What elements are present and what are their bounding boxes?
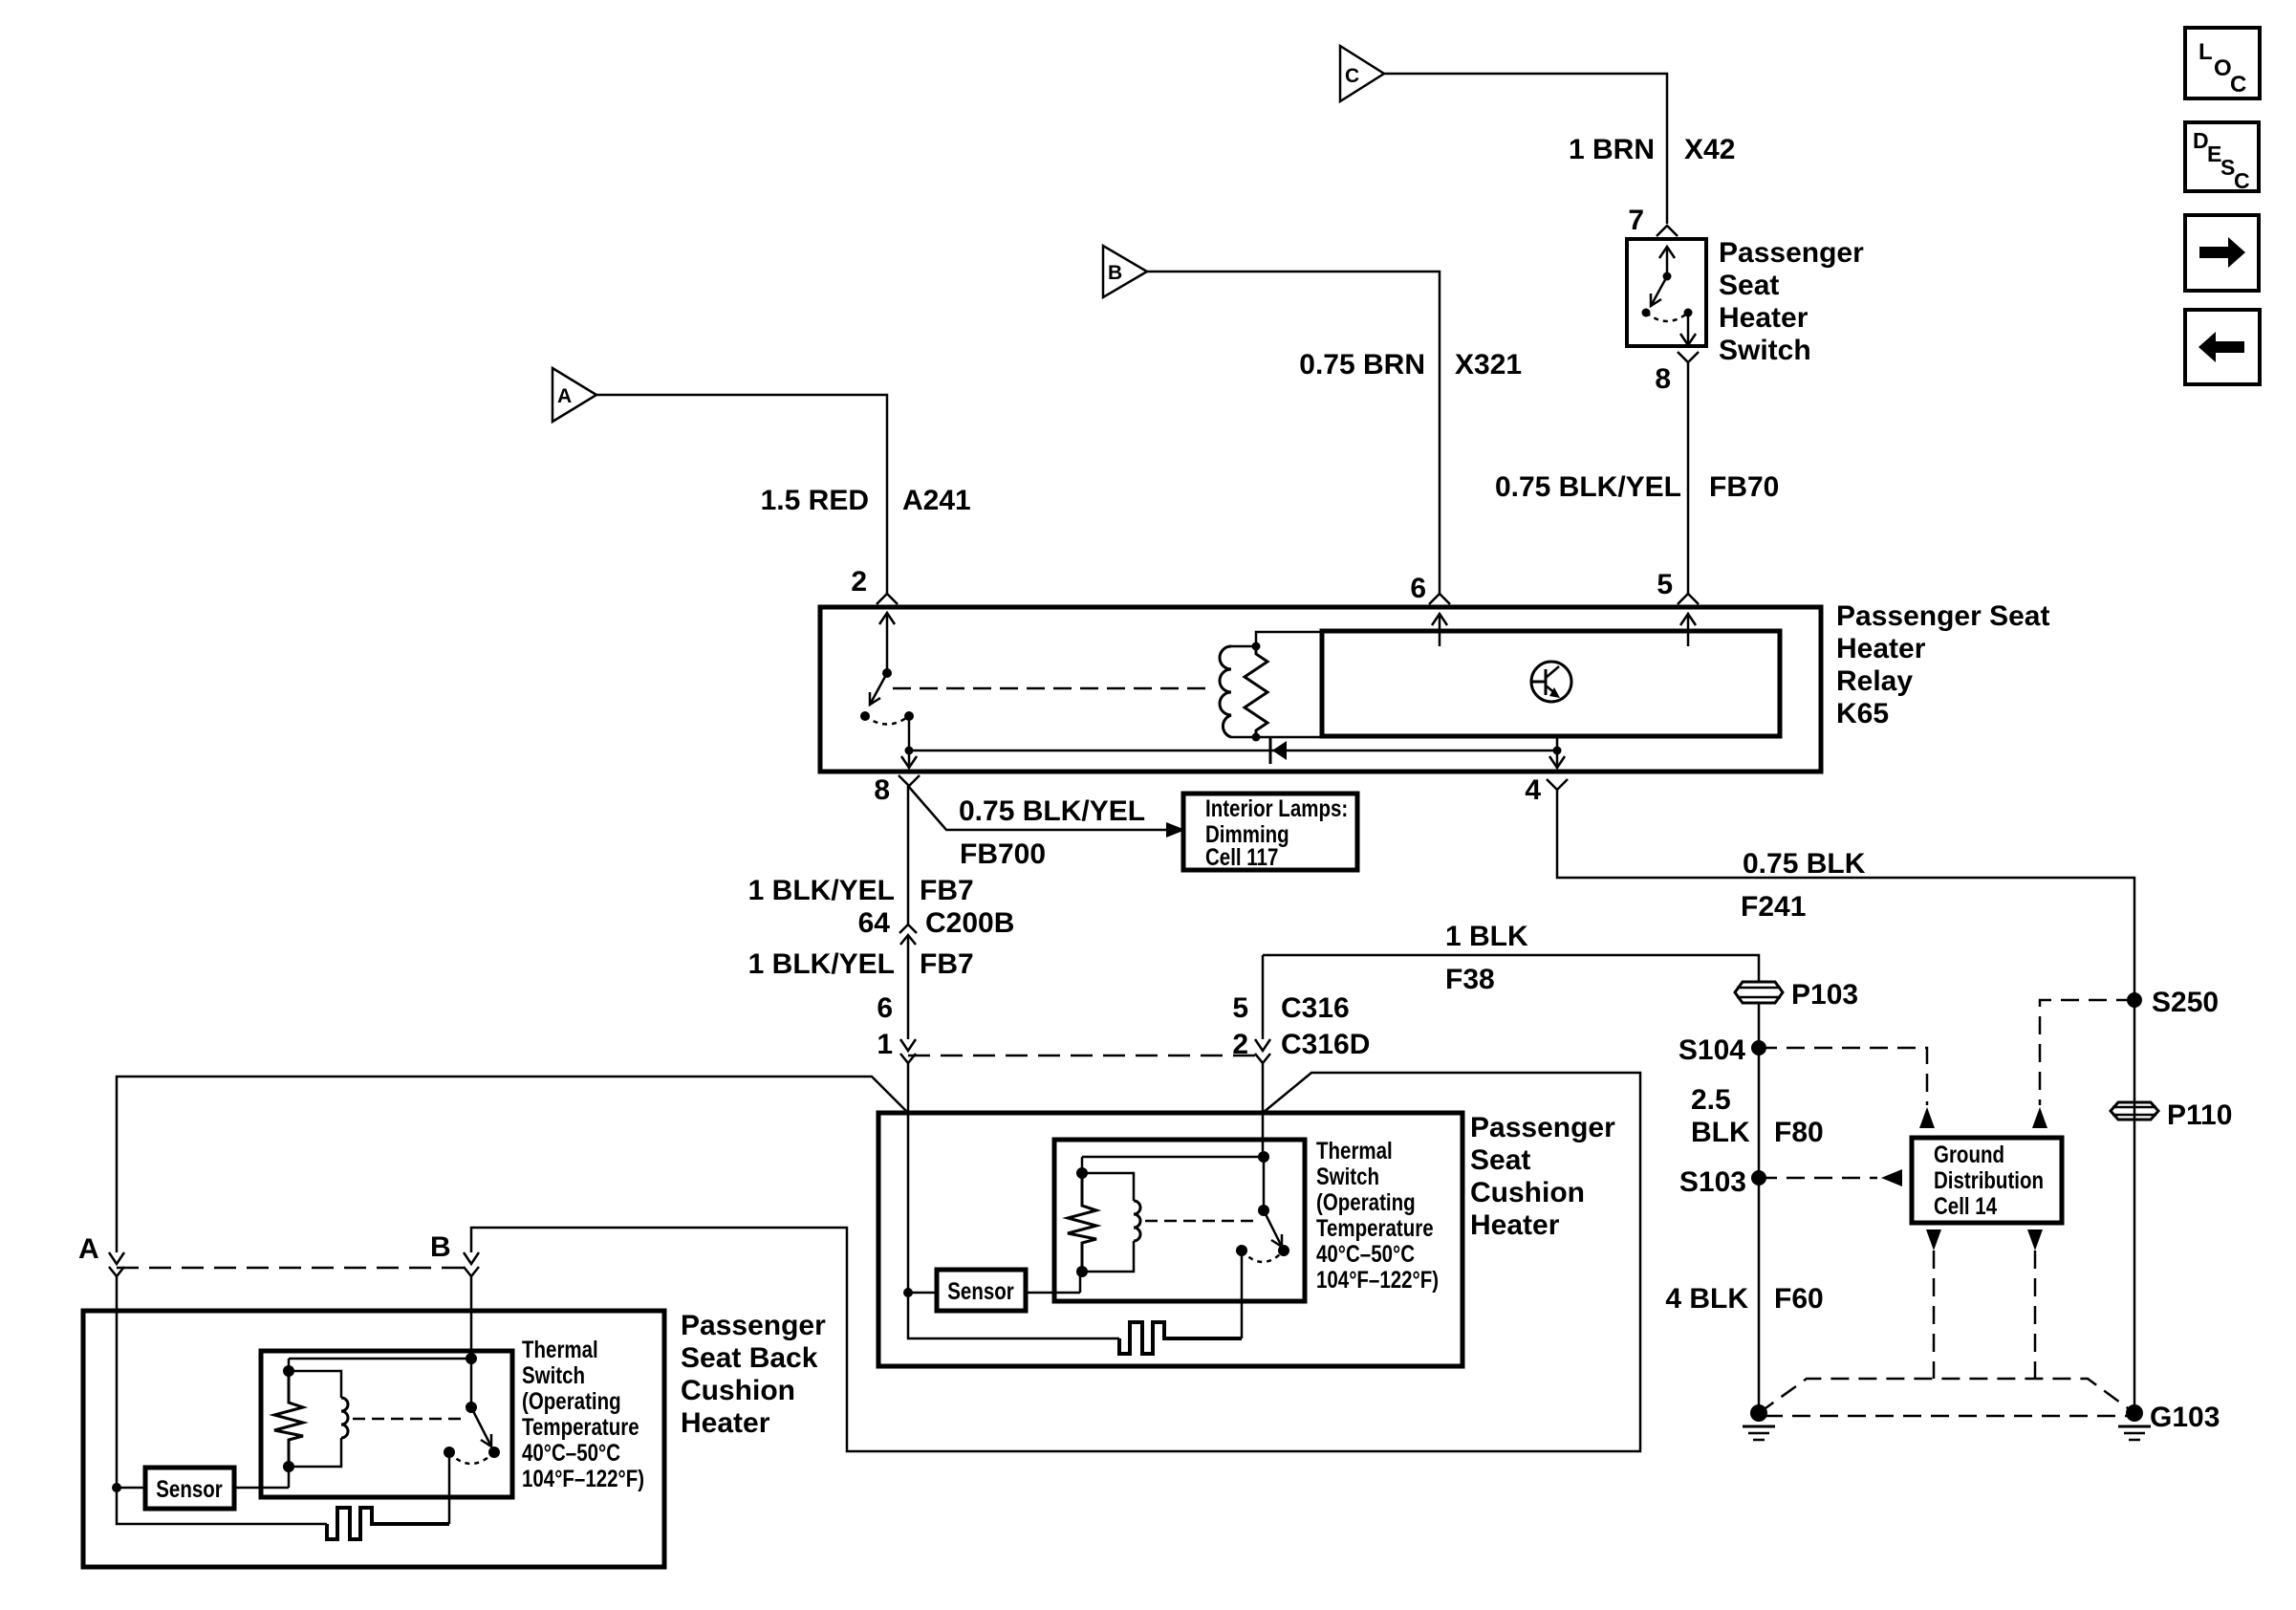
label 0.75 BRN X321 bbox=[1299, 349, 1522, 381]
wire F38 bbox=[1263, 955, 1759, 981]
relay internal bottom wire bbox=[909, 750, 1557, 752]
left actuation dashed bbox=[353, 1418, 466, 1421]
middle switch top bar bbox=[1082, 1156, 1264, 1159]
dashed S103 to ground distribution bbox=[1759, 1177, 1877, 1180]
A connector arrow + chevrons bbox=[109, 1252, 124, 1488]
left heater box: Passenger Seat Back Cushion Heater bbox=[83, 1311, 664, 1567]
svg-text:X321: X321 bbox=[1455, 349, 1522, 381]
Interior Lamps callout box bbox=[1183, 794, 1357, 870]
svg-text:F241: F241 bbox=[1741, 891, 1806, 923]
svg-text:40°C–50°C: 40°C–50°C bbox=[522, 1439, 620, 1466]
middle sensor junction bbox=[903, 1288, 913, 1297]
svg-text:C200B: C200B bbox=[925, 907, 1014, 939]
svg-text:6: 6 bbox=[877, 992, 893, 1024]
label 1 BLK F38 bbox=[1445, 921, 1528, 995]
middle thermal switch box bbox=[1054, 1140, 1305, 1301]
wire relay pin 8 down bbox=[907, 786, 910, 925]
switch S dashed arc bbox=[1646, 313, 1688, 321]
svg-text:Passenger: Passenger bbox=[1719, 237, 1864, 269]
svg-text:0.75 BLK/YEL: 0.75 BLK/YEL bbox=[1495, 471, 1681, 503]
svg-text:A: A bbox=[78, 1233, 99, 1265]
svg-text:2.5: 2.5 bbox=[1691, 1084, 1731, 1116]
svg-text:Switch: Switch bbox=[1719, 335, 1811, 366]
relay inner module box bbox=[1322, 631, 1780, 736]
pass-through P110 bbox=[2111, 1099, 2232, 1131]
svg-text:S250: S250 bbox=[2152, 987, 2219, 1018]
splice S250 bbox=[2127, 987, 2219, 1018]
label 1 BLK/YEL FB7 upper bbox=[748, 875, 974, 906]
middle switch arm bbox=[1264, 1210, 1289, 1256]
dashed below ground distribution right bbox=[2027, 1229, 2043, 1379]
label 1.5 RED A241 bbox=[761, 485, 971, 516]
svg-text:1 BLK/YEL: 1 BLK/YEL bbox=[748, 948, 895, 980]
svg-text:Relay: Relay bbox=[1836, 665, 1913, 697]
label 0.75 BLK F241 bbox=[1741, 848, 1866, 923]
middle resistor bbox=[1068, 1157, 1096, 1277]
relay switch common arrow (pin 2) bbox=[879, 613, 895, 678]
svg-text:0.75 BLK/YEL: 0.75 BLK/YEL bbox=[959, 795, 1145, 827]
left thermal switch label bbox=[522, 1336, 644, 1491]
LOC legend box bbox=[2185, 28, 2260, 98]
middle heater element bbox=[908, 1251, 1242, 1354]
svg-text:Cell 14: Cell 14 bbox=[1934, 1192, 1997, 1219]
relay coil assembly bottom lead bbox=[1256, 736, 1322, 739]
svg-text:40°C–50°C: 40°C–50°C bbox=[1316, 1240, 1415, 1267]
connector triangle A bbox=[552, 368, 596, 422]
svg-text:Passenger: Passenger bbox=[1470, 1112, 1615, 1143]
middle switch common bbox=[1258, 1151, 1269, 1216]
pass-through P103 bbox=[1735, 979, 1858, 1011]
splice S104 bbox=[1679, 1034, 1766, 1066]
svg-text:Cushion: Cushion bbox=[681, 1375, 795, 1406]
label 1 BLK/YEL FB7 lower bbox=[748, 948, 974, 980]
svg-text:5: 5 bbox=[1657, 569, 1673, 600]
dashed below ground distribution left bbox=[1926, 1229, 1941, 1379]
DESC legend box bbox=[2185, 122, 2259, 193]
svg-text:P110: P110 bbox=[2167, 1099, 2232, 1131]
svg-text:Cell 117: Cell 117 bbox=[1205, 843, 1278, 870]
wire A-line to middle heater box bbox=[117, 1077, 908, 1252]
svg-text:104°F–122°F): 104°F–122°F) bbox=[1316, 1266, 1439, 1293]
label 0.75 BLK/YEL FB700 bbox=[959, 795, 1145, 870]
wire B to relay pin 6 bbox=[1147, 272, 1440, 594]
svg-text:Passenger: Passenger bbox=[681, 1310, 826, 1341]
ground G103 bbox=[2118, 1402, 2220, 1440]
svg-text:Sensor: Sensor bbox=[156, 1475, 223, 1502]
ground symbol left F60 bbox=[1743, 1404, 1775, 1440]
svg-text:Thermal: Thermal bbox=[1316, 1137, 1393, 1164]
relay pin 8 chevron bbox=[899, 775, 920, 786]
svg-text:F60: F60 bbox=[1774, 1283, 1824, 1315]
svg-text:6: 6 bbox=[1410, 573, 1426, 604]
dashed S104 to ground distribution bbox=[1759, 1048, 1927, 1105]
svg-text:7: 7 bbox=[1628, 205, 1644, 236]
wire down to P110 bbox=[2134, 1000, 2136, 1413]
svg-text:1: 1 bbox=[877, 1029, 893, 1060]
svg-text:Thermal: Thermal bbox=[522, 1336, 598, 1362]
svg-text:A: A bbox=[557, 385, 572, 407]
switch S arm bbox=[1642, 276, 1668, 317]
svg-text:F38: F38 bbox=[1445, 964, 1495, 995]
svg-text:104°F–122°F): 104°F–122°F) bbox=[522, 1465, 644, 1491]
svg-text:8: 8 bbox=[874, 774, 890, 806]
svg-text:C316D: C316D bbox=[1281, 1029, 1370, 1060]
middle sensor wires bbox=[908, 1272, 1080, 1293]
relay pin 6 arrow bbox=[1432, 614, 1447, 646]
connector triangle B bbox=[1103, 246, 1147, 297]
svg-text:4: 4 bbox=[1525, 774, 1541, 806]
middle coil bbox=[1082, 1173, 1140, 1272]
svg-text:8: 8 bbox=[1655, 363, 1671, 395]
middle heater box: Passenger Seat Cushion Heater bbox=[878, 1113, 1462, 1366]
middle switch dashed arc bbox=[1242, 1251, 1284, 1262]
connector C200B label 64 bbox=[858, 907, 1015, 939]
svg-text:FB7: FB7 bbox=[920, 875, 974, 906]
wire switch pin 8 to relay pin 5 bbox=[1687, 362, 1690, 594]
wire B routing around middle heater box bbox=[471, 1073, 1640, 1451]
label 1 BRN X42 bbox=[1569, 134, 1735, 165]
pin1 connector arrow + chevrons bbox=[900, 1039, 916, 1113]
svg-text:1.5 RED: 1.5 RED bbox=[761, 485, 869, 516]
middle sensor box bbox=[937, 1270, 1026, 1311]
svg-text:(Operating: (Operating bbox=[1316, 1188, 1416, 1215]
svg-text:Interior Lamps:: Interior Lamps: bbox=[1205, 794, 1348, 821]
svg-text:X42: X42 bbox=[1684, 134, 1735, 165]
C316 C316D labels bbox=[1281, 992, 1370, 1060]
svg-text:1 BLK: 1 BLK bbox=[1445, 921, 1528, 952]
svg-text:Seat Back: Seat Back bbox=[681, 1342, 818, 1374]
svg-text:Temperature: Temperature bbox=[522, 1413, 639, 1440]
svg-text:S104: S104 bbox=[1679, 1034, 1745, 1066]
svg-text:Seat: Seat bbox=[1719, 270, 1779, 301]
chevron female terminal pin 7 bbox=[1657, 226, 1678, 236]
Ground Distribution box bbox=[1912, 1138, 2062, 1223]
twisted pair dashed A-B bbox=[117, 1267, 471, 1270]
svg-text:FB70: FB70 bbox=[1709, 471, 1779, 503]
relay switch dashed arc bbox=[865, 716, 909, 725]
left sensor junction bbox=[112, 1483, 121, 1492]
wire A to relay pin 2 bbox=[596, 395, 887, 594]
middle actuation dashed bbox=[1145, 1220, 1260, 1223]
svg-text:F80: F80 bbox=[1774, 1117, 1824, 1148]
svg-text:BLK: BLK bbox=[1691, 1117, 1750, 1148]
svg-text:FB7: FB7 bbox=[920, 948, 974, 980]
left thermal switch box bbox=[261, 1351, 512, 1497]
svg-text:Distribution: Distribution bbox=[1934, 1166, 2044, 1193]
svg-text:4 BLK: 4 BLK bbox=[1665, 1283, 1748, 1315]
svg-text:B: B bbox=[430, 1231, 451, 1263]
label 4 BLK F60 bbox=[1665, 1283, 1823, 1315]
left switch dashed arc bbox=[449, 1452, 494, 1464]
left switch top bar bbox=[289, 1358, 471, 1360]
svg-text:G103: G103 bbox=[2150, 1402, 2220, 1433]
svg-text:0.75 BRN: 0.75 BRN bbox=[1299, 349, 1425, 381]
switch label bbox=[1719, 237, 1864, 366]
svg-text:Switch: Switch bbox=[1316, 1163, 1379, 1189]
dashed S250 to ground distribution bbox=[2040, 1000, 2134, 1105]
svg-text:A241: A241 bbox=[902, 485, 971, 516]
svg-text:L: L bbox=[2199, 39, 2213, 65]
relay coil assembly top lead bbox=[1256, 632, 1322, 646]
relay coil resistor bbox=[1245, 642, 1267, 742]
twisted pair dashed C200B-C316 bbox=[908, 1055, 1263, 1057]
middle switch fixed contact bbox=[1236, 1245, 1247, 1256]
svg-text:1 BLK/YEL: 1 BLK/YEL bbox=[748, 875, 895, 906]
left switch common bbox=[466, 1353, 477, 1413]
svg-text:S103: S103 bbox=[1679, 1166, 1746, 1198]
switch S internals: input arrow bbox=[1659, 247, 1675, 281]
left heater element bbox=[117, 1452, 449, 1539]
connector C200B chevrons bbox=[899, 925, 917, 933]
svg-text:1 BRN: 1 BRN bbox=[1569, 134, 1655, 165]
FB700 branch wire with arrow bbox=[908, 786, 1185, 838]
svg-text:2: 2 bbox=[851, 566, 867, 598]
svg-text:0.75 BLK: 0.75 BLK bbox=[1743, 848, 1866, 880]
svg-text:C: C bbox=[2230, 72, 2246, 98]
svg-text:FB700: FB700 bbox=[960, 838, 1046, 870]
svg-text:C316: C316 bbox=[1281, 992, 1350, 1024]
relay switch arm bbox=[860, 673, 887, 721]
svg-text:Sensor: Sensor bbox=[947, 1277, 1014, 1304]
dashed trapezoid to grounds bbox=[1759, 1379, 2134, 1413]
diode bbox=[1270, 737, 1287, 764]
svg-text:Seat: Seat bbox=[1470, 1144, 1530, 1176]
middle thermal switch label bbox=[1316, 1137, 1439, 1293]
svg-text:C: C bbox=[2234, 168, 2250, 193]
connector triangle C bbox=[1340, 46, 1384, 101]
relay switch output contact bbox=[901, 711, 917, 768]
switch S: Passenger Seat Heater Switch box bbox=[1627, 239, 1706, 346]
svg-text:Switch: Switch bbox=[522, 1361, 585, 1388]
dashed line between grounds bbox=[1765, 1415, 2129, 1418]
left sensor wires bbox=[117, 1467, 289, 1488]
B connector arrow + chevrons bbox=[464, 1252, 479, 1359]
svg-text:2: 2 bbox=[1232, 1029, 1248, 1060]
transistor symbol bbox=[1531, 662, 1571, 702]
prev-page arrow box bbox=[2185, 310, 2260, 384]
relay actuation dashed line bbox=[893, 687, 1214, 690]
middle entry wire from pin 1 bbox=[907, 1113, 910, 1293]
left switch arm bbox=[471, 1407, 500, 1458]
label 2.5 BLK F80 bbox=[1691, 1084, 1824, 1148]
left heater label bbox=[681, 1310, 826, 1439]
left resistor bbox=[274, 1359, 303, 1472]
wire P103 down bbox=[1758, 1003, 1761, 1413]
svg-text:Passenger Seat: Passenger Seat bbox=[1836, 600, 2049, 632]
svg-text:B: B bbox=[1108, 262, 1122, 284]
wire C to switch pin 7 bbox=[1384, 74, 1667, 224]
svg-text:Heater: Heater bbox=[1719, 302, 1809, 334]
svg-text:C: C bbox=[1345, 65, 1359, 87]
svg-text:Heater: Heater bbox=[1470, 1209, 1560, 1241]
svg-text:K65: K65 bbox=[1836, 698, 1889, 729]
svg-text:Cushion: Cushion bbox=[1470, 1177, 1585, 1208]
relay coil bbox=[1220, 646, 1256, 737]
wire 0.75 BLK F241 from relay pin 4 bbox=[1557, 790, 2134, 999]
left switch fixed contact bbox=[444, 1447, 455, 1458]
svg-text:Heater: Heater bbox=[1836, 633, 1926, 664]
pin 8 chevron bbox=[1678, 352, 1699, 362]
svg-text:O: O bbox=[2214, 55, 2232, 81]
svg-text:P103: P103 bbox=[1791, 979, 1858, 1011]
relay pin 4 junction bbox=[1549, 736, 1565, 768]
splice S103 bbox=[1679, 1166, 1766, 1198]
C316D connector arrow + chevrons bbox=[1255, 955, 1270, 1155]
svg-text:Temperature: Temperature bbox=[1316, 1214, 1434, 1241]
svg-text:64: 64 bbox=[858, 907, 891, 939]
label 0.75 BLK/YEL FB70 bbox=[1495, 471, 1779, 503]
left sensor box bbox=[145, 1468, 234, 1509]
relay pin 5 arrow bbox=[1680, 614, 1696, 646]
connector C200B male arrow bbox=[900, 935, 916, 1039]
relay label bbox=[1836, 600, 2049, 729]
middle heater label bbox=[1470, 1112, 1615, 1241]
svg-text:Heater: Heater bbox=[681, 1407, 770, 1439]
relay K65 box bbox=[820, 607, 1821, 772]
left coil bbox=[289, 1371, 348, 1467]
switch S output contact bbox=[1680, 309, 1696, 346]
svg-text:(Operating: (Operating bbox=[522, 1387, 621, 1414]
next-page arrow box bbox=[2185, 215, 2259, 291]
svg-text:5: 5 bbox=[1232, 992, 1248, 1024]
svg-text:Ground: Ground bbox=[1934, 1141, 2004, 1167]
